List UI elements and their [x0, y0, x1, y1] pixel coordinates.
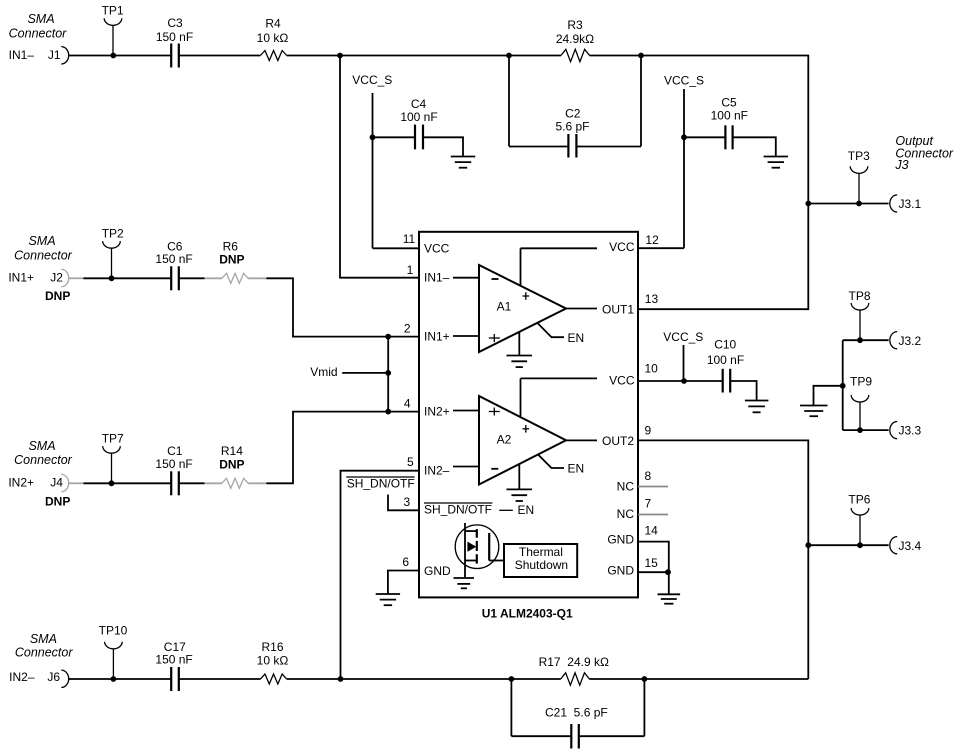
node TP6 junction	[857, 542, 863, 548]
wire to pin 2	[388, 336, 419, 338]
wire C1 to R14	[179, 482, 205, 484]
wire A2 VCC riser	[521, 378, 598, 416]
A2 plus input marker	[489, 408, 500, 416]
node R17 left junction	[509, 676, 515, 682]
svg-text:GND: GND	[607, 564, 634, 578]
resistor R4	[257, 17, 289, 61]
wire node A to R3 node	[340, 55, 509, 57]
wire C4 to ground	[423, 137, 463, 156]
svg-text:SH_DN/OTF: SH_DN/OTF	[347, 477, 415, 491]
svg-text:J6: J6	[47, 670, 60, 684]
A1 supply plus marker	[523, 292, 530, 300]
capacitor C17	[155, 640, 192, 691]
node TP2 junction	[109, 275, 115, 281]
testpoint TP1	[102, 4, 124, 56]
node pin14/15 junction	[665, 569, 671, 575]
testpoint TP7	[102, 432, 124, 484]
svg-text:TP1: TP1	[102, 4, 124, 18]
svg-text:TP8: TP8	[848, 289, 870, 303]
A2 supply plus marker	[523, 425, 530, 433]
svg-text:J3.1: J3.1	[899, 197, 922, 211]
svg-text:NC: NC	[617, 479, 635, 493]
wire A1 EN elbow	[538, 323, 564, 337]
wire pin 5 to bottom net	[341, 471, 420, 679]
connector J1	[61, 47, 68, 64]
wire C17 to R16	[179, 678, 261, 680]
svg-text:J3.3: J3.3	[899, 424, 922, 438]
svg-text:6: 6	[402, 555, 409, 569]
svg-text:3: 3	[404, 495, 411, 509]
wire J1 to C3	[69, 55, 172, 57]
label SMA Connector (J4)	[14, 439, 73, 467]
wire pin 8 NC stub (gray)	[638, 486, 668, 488]
node R17 right junction	[642, 676, 648, 682]
svg-text:VCC_S: VCC_S	[664, 74, 704, 88]
resistor R16	[257, 640, 289, 684]
wire A1 ground stem	[518, 332, 520, 356]
wire to C10	[684, 380, 723, 382]
node TP8 junction	[857, 337, 863, 343]
wire to pin 4	[388, 411, 419, 413]
svg-text:VCC_S: VCC_S	[352, 73, 392, 87]
svg-text:EN: EN	[518, 503, 535, 517]
label Output Connector J3	[894, 134, 954, 172]
svg-text:GND: GND	[424, 564, 451, 578]
wire A2 EN elbow	[538, 455, 564, 469]
svg-text:J2: J2	[50, 271, 63, 285]
power flag VCC_S (C5)	[664, 74, 704, 249]
capacitor C4	[400, 97, 437, 150]
ground (C10)	[745, 401, 769, 413]
wire R4 to node A	[287, 55, 340, 57]
svg-text:OUT2: OUT2	[602, 434, 634, 448]
node VCC_S/C5 junction	[681, 134, 687, 140]
svg-text:15: 15	[645, 556, 659, 570]
wire C10 to ground	[730, 381, 756, 401]
svg-text:SMA: SMA	[27, 12, 54, 26]
op-amp IC U1 box	[419, 232, 638, 598]
svg-text:SMA: SMA	[28, 234, 55, 248]
wire R14 to pin 4	[266, 412, 388, 484]
node B (R3 left)	[506, 53, 512, 59]
testpoint TP3	[848, 149, 870, 204]
svg-text:Thermal: Thermal	[519, 545, 563, 559]
svg-text:150 nF: 150 nF	[155, 252, 192, 266]
svg-text:J3.2: J3.2	[899, 334, 922, 348]
svg-text:C21 5.6 pF: C21 5.6 pF	[545, 706, 608, 720]
wire feedback node to OUT2 riser	[644, 678, 808, 680]
thermal shutdown block	[504, 544, 577, 577]
op-amp A1	[479, 265, 566, 352]
node pin10/C10 junction	[681, 378, 687, 384]
svg-text:150 nF: 150 nF	[156, 30, 193, 44]
capacitor C21	[545, 706, 608, 749]
svg-text:10 kΩ: 10 kΩ	[257, 654, 289, 668]
svg-text:24.9kΩ: 24.9kΩ	[556, 32, 594, 46]
capacitor C2	[555, 107, 589, 158]
wire to pin 11	[373, 247, 420, 249]
svg-text:R16: R16	[261, 640, 283, 654]
svg-text:8: 8	[645, 469, 652, 483]
connector J3.2	[890, 332, 897, 349]
svg-text:TP7: TP7	[102, 432, 124, 446]
wire R6 to pin 2	[266, 278, 388, 336]
svg-text:J4: J4	[50, 476, 63, 490]
svg-text:Connector: Connector	[14, 248, 73, 262]
svg-text:1: 1	[407, 263, 414, 277]
svg-text:IN2+: IN2+	[424, 404, 450, 418]
svg-text:Connector: Connector	[15, 646, 74, 660]
resistor R17	[511, 655, 644, 685]
svg-text:DNP: DNP	[219, 457, 244, 471]
wire J4 to C1	[83, 482, 171, 484]
capacitor C5	[711, 95, 748, 149]
svg-text:IN1+: IN1+	[8, 271, 34, 285]
node Vmid junction	[385, 370, 391, 376]
resistor R6 (DNP, gray)	[205, 239, 267, 283]
svg-text:13: 13	[645, 292, 659, 306]
node pin5 riser junction	[338, 676, 344, 682]
capacitor C2 parallel branch wires	[509, 56, 641, 147]
capacitor C1	[155, 444, 192, 495]
wire A1 OUT1 stub	[566, 308, 597, 310]
svg-text:DNP: DNP	[45, 289, 70, 303]
svg-text:2: 2	[404, 322, 411, 336]
svg-text:100 nF: 100 nF	[711, 109, 748, 123]
wire to C5	[684, 136, 725, 138]
node pin2 junction	[385, 334, 391, 340]
wire OUT2 to J3.4/bottom	[638, 440, 808, 679]
pin 3 SH_DN/OTF label	[424, 503, 534, 517]
svg-text:A2: A2	[497, 433, 512, 447]
wire J3.2/J3.3 vertical	[842, 340, 844, 430]
wire J3.2	[843, 339, 889, 341]
svg-text:SH_DN/OTF: SH_DN/OTF	[424, 503, 492, 517]
svg-text:100 nF: 100 nF	[707, 353, 744, 367]
ground (A2)	[507, 489, 533, 501]
svg-text:R14: R14	[221, 444, 243, 458]
node TP1/J1 junction	[110, 53, 116, 59]
svg-text:14: 14	[645, 524, 659, 538]
power flag VCC_S (C4)	[352, 73, 392, 249]
svg-text:VCC_S: VCC_S	[663, 330, 703, 344]
ground (pin 6)	[376, 594, 400, 605]
resistor R3	[509, 18, 641, 62]
ground (MOSFET source)	[454, 578, 475, 588]
svg-text:DNP: DNP	[45, 494, 70, 508]
ground (C5)	[764, 157, 788, 168]
svg-text:C5: C5	[721, 95, 737, 109]
svg-text:U1 ALM2403-Q1: U1 ALM2403-Q1	[482, 607, 573, 621]
svg-text:NC: NC	[617, 507, 635, 521]
label SMA Connector (J6)	[15, 632, 74, 660]
svg-text:C4: C4	[411, 97, 427, 111]
ground (pin 15)	[658, 594, 681, 603]
node TP3 junction	[856, 201, 862, 207]
testpoint TP10	[99, 624, 128, 679]
A2 minus input marker	[491, 468, 498, 470]
node TP10 junction	[111, 676, 117, 682]
svg-text:Shutdown: Shutdown	[515, 558, 568, 572]
svg-text:IN1+: IN1+	[424, 330, 450, 344]
wire pin 4 stub	[453, 410, 479, 412]
svg-text:TP3: TP3	[848, 149, 870, 163]
label SMA Connector (J1)	[9, 12, 68, 41]
node VCC_S/C4 junction	[370, 134, 376, 140]
svg-text:7: 7	[645, 497, 652, 511]
svg-text:EN: EN	[568, 462, 585, 476]
wire A2 ground stem	[518, 464, 520, 489]
svg-text:5.6 pF: 5.6 pF	[555, 120, 589, 134]
wire pin 7 NC stub (gray)	[638, 514, 668, 516]
svg-text:TP6: TP6	[848, 493, 870, 507]
wire to J3.1	[808, 203, 888, 205]
svg-text:9: 9	[645, 423, 652, 437]
svg-text:100 nF: 100 nF	[400, 110, 437, 124]
svg-text:VCC: VCC	[424, 241, 450, 255]
node OUT2/J3.4 junction	[805, 542, 811, 548]
svg-text:SMA: SMA	[30, 632, 57, 646]
net label SH_DN/OTF (left)	[346, 477, 415, 491]
node A	[337, 53, 343, 59]
power flag VCC_S (C10)	[663, 330, 703, 381]
svg-text:GND: GND	[607, 533, 634, 547]
svg-text:SMA: SMA	[28, 439, 55, 453]
wire J6 to C17	[69, 678, 172, 680]
svg-text:R3: R3	[567, 18, 583, 32]
capacitor C3	[156, 16, 193, 68]
svg-text:TP9: TP9	[850, 375, 872, 389]
svg-text:10 kΩ: 10 kΩ	[257, 31, 289, 45]
A1 minus input marker	[492, 278, 499, 280]
svg-text:DNP: DNP	[219, 253, 244, 267]
svg-text:VCC: VCC	[609, 240, 635, 254]
svg-text:C10: C10	[714, 338, 736, 352]
svg-text:4: 4	[404, 396, 411, 410]
resistor R14 (DNP, gray)	[205, 444, 267, 488]
svg-text:IN2–: IN2–	[424, 464, 450, 478]
wire pin 15	[638, 571, 669, 573]
wire node A to pin 1	[340, 56, 419, 278]
svg-text:IN1–: IN1–	[9, 48, 35, 62]
node TP9 junction	[857, 427, 863, 433]
capacitor C10	[707, 338, 744, 393]
testpoint TP9	[850, 375, 872, 431]
svg-text:OUT1: OUT1	[602, 303, 634, 317]
svg-text:11: 11	[403, 232, 416, 246]
svg-text:EN: EN	[568, 331, 585, 345]
svg-text:5: 5	[407, 455, 414, 469]
svg-text:VCC: VCC	[609, 374, 635, 388]
svg-text:R6: R6	[223, 239, 239, 253]
capacitor C6	[155, 239, 192, 290]
svg-text:Vmid: Vmid	[310, 365, 337, 379]
testpoint TP6	[848, 493, 870, 546]
svg-text:R4: R4	[265, 17, 281, 31]
connector J3.1	[890, 195, 897, 212]
svg-text:IN1–: IN1–	[424, 271, 450, 285]
wire C6 to R6	[179, 277, 205, 279]
wire A2 OUT2 stub	[566, 439, 597, 441]
connector J6	[61, 670, 68, 687]
wire Vmid bus vertical	[387, 337, 389, 412]
svg-text:150 nF: 150 nF	[155, 653, 192, 667]
wire pin 2 stub	[453, 335, 479, 337]
svg-text:J1: J1	[48, 48, 61, 62]
wire tee to ground	[814, 386, 843, 405]
svg-text:Connector: Connector	[14, 453, 73, 467]
wire pin 14 to pin 15	[638, 542, 669, 573]
svg-text:150 nF: 150 nF	[155, 457, 192, 471]
connector J2 (DNP, gray)	[61, 269, 68, 286]
svg-text:IN2–: IN2–	[9, 670, 35, 684]
label SMA Connector (J2)	[14, 234, 73, 262]
wire to ground	[668, 572, 670, 594]
op-amp A2	[479, 396, 566, 485]
testpoint TP8	[848, 289, 870, 340]
wire C5 to ground	[733, 137, 776, 156]
ground (A1)	[507, 356, 533, 368]
connector J4 (DNP, gray)	[61, 474, 68, 491]
wire C3 to R4	[179, 55, 261, 57]
svg-text:TP2: TP2	[102, 227, 124, 241]
svg-text:A1: A1	[497, 299, 512, 313]
wire pin 10	[638, 380, 684, 382]
wire J3.4	[808, 544, 888, 546]
svg-text:IN2+: IN2+	[8, 476, 34, 490]
wire pin 12 to VCC_S riser	[638, 247, 684, 249]
wire J2 to C6	[83, 277, 171, 279]
capacitor C21 parallel branch wires	[511, 679, 644, 736]
wire pin 5 stub	[453, 466, 479, 468]
wire J4 gray lead	[69, 482, 84, 484]
connector J3.4	[890, 537, 897, 554]
wire pin 6 to ground	[388, 571, 419, 595]
wire pin 1 stub	[453, 277, 479, 279]
node pin4 junction	[385, 409, 391, 415]
svg-text:12: 12	[645, 233, 659, 247]
transistor Q1 (thermal shutdown MOSFET)	[455, 523, 504, 577]
wire R16 to feedback node	[287, 678, 512, 680]
svg-text:Connector: Connector	[9, 27, 68, 41]
svg-text:10: 10	[645, 362, 659, 376]
node ground tee junction	[840, 383, 846, 389]
svg-text:TP10: TP10	[99, 624, 128, 638]
ground (J3 shield)	[800, 406, 828, 417]
wire OUT1 riser	[638, 204, 808, 310]
svg-text:R17 24.9 kΩ: R17 24.9 kΩ	[539, 655, 609, 669]
node J3.1 junction	[805, 201, 811, 207]
svg-text:C3: C3	[167, 16, 183, 30]
wire to C4	[373, 136, 416, 138]
ground (C4)	[451, 157, 475, 168]
svg-text:J3: J3	[894, 158, 908, 172]
wire J2 gray lead	[69, 277, 84, 279]
svg-text:C2: C2	[565, 107, 581, 121]
wire SH_DN/OTF stub to pin 3	[388, 495, 419, 511]
connector J3.3	[890, 422, 897, 439]
testpoint TP2	[102, 227, 124, 279]
wire J3.3	[843, 429, 889, 431]
wire Vmid	[342, 372, 388, 374]
svg-text:J3.4: J3.4	[899, 539, 922, 553]
A1 plus input marker	[489, 334, 500, 342]
node TP7 junction	[109, 480, 115, 486]
wire A1 VCC riser	[521, 248, 598, 286]
node C (R3 right)	[638, 53, 644, 59]
wire node C to output corner	[641, 56, 808, 204]
